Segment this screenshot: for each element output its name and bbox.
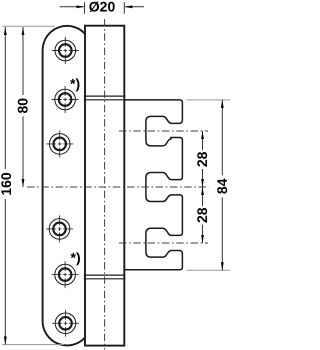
hole 4 bbox=[46, 215, 73, 242]
dimension 28 upper bbox=[202, 131, 204, 150]
hole 6 bbox=[52, 310, 79, 337]
svg-text:160: 160 bbox=[0, 172, 14, 196]
hole 2 bbox=[52, 86, 79, 113]
extension line bottom left bbox=[2, 344, 64, 346]
svg-text:*): *) bbox=[70, 76, 80, 92]
claw 1 center line bbox=[119, 130, 208, 132]
knuckle joint bottom bbox=[84, 274, 126, 276]
hole 5 bbox=[52, 261, 79, 288]
horizontal center line bbox=[27, 186, 209, 188]
extension line top left bbox=[2, 25, 55, 27]
svg-text:*): *) bbox=[71, 250, 81, 266]
knuckle joint top bbox=[84, 95, 126, 97]
extension line 84 bottom bbox=[187, 269, 231, 271]
vertical center line bbox=[104, 19, 106, 350]
dimension 80 line bbox=[22, 27, 24, 95]
svg-text:28: 28 bbox=[194, 151, 210, 167]
dimension O20 bbox=[84, 2, 86, 13]
svg-text:Ø20: Ø20 bbox=[89, 0, 116, 15]
claw 3 center line bbox=[119, 242, 208, 244]
hole 1 bbox=[52, 37, 79, 64]
frame part outline with claws bbox=[124, 100, 182, 270]
extension line 84 top bbox=[187, 99, 231, 101]
svg-text:80: 80 bbox=[15, 98, 31, 114]
leaf plate bbox=[43, 26, 85, 346]
dimension 160 line bbox=[4, 27, 6, 169]
svg-text:28: 28 bbox=[194, 207, 210, 223]
dimension 84 bbox=[221, 100, 223, 175]
hole 3 bbox=[46, 130, 73, 157]
hinge knuckle barrel bbox=[85, 26, 124, 346]
dimension 28 lower bbox=[202, 187, 204, 206]
svg-text:84: 84 bbox=[214, 178, 230, 194]
